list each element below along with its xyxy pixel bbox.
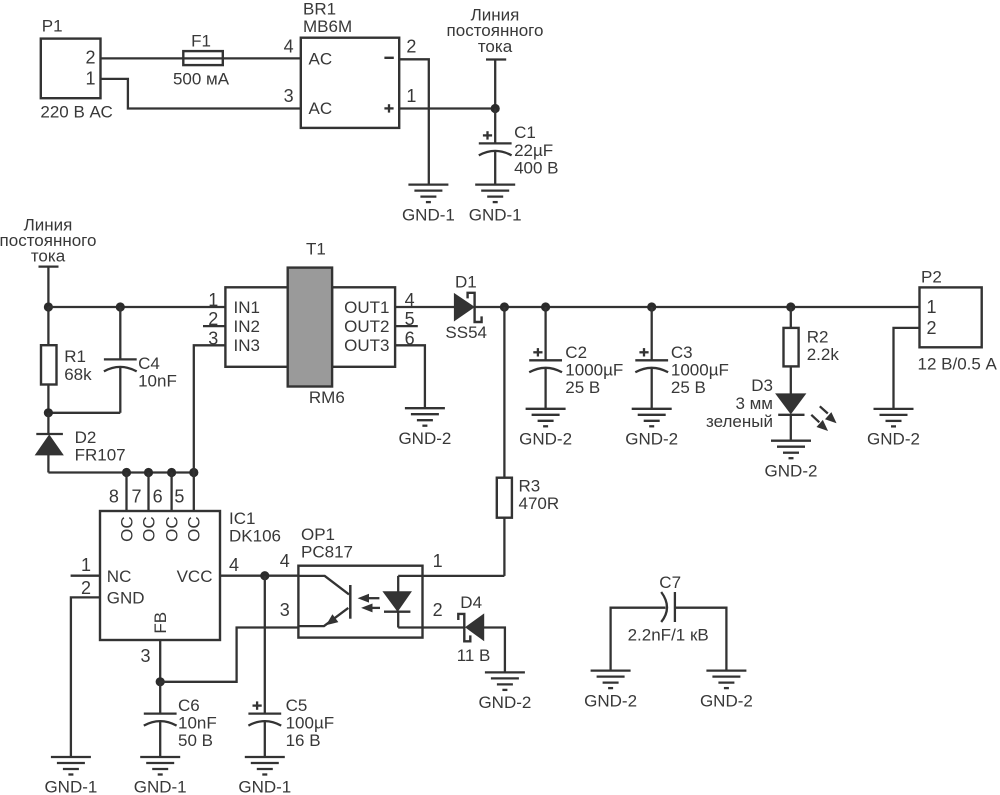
- wire: [395, 325, 418, 327]
- net label Линия постоянного тока: [447, 6, 544, 109]
- capacitor C5: [248, 576, 334, 757]
- node: [44, 302, 53, 311]
- svg-text:GND-1: GND-1: [134, 778, 187, 795]
- svg-text:R1: R1: [64, 347, 86, 366]
- capacitor C6: [144, 682, 217, 757]
- IC U1 DK106: [81, 486, 281, 666]
- svg-text:1: 1: [927, 297, 937, 317]
- node: [156, 677, 165, 686]
- svg-text:3: 3: [280, 600, 290, 620]
- ground GND-2: [398, 408, 451, 448]
- connector P2: [918, 267, 998, 373]
- wire: [484, 628, 505, 673]
- svg-text:GND-2: GND-2: [867, 430, 920, 449]
- svg-text:1000µF: 1000µF: [671, 361, 729, 380]
- node: [541, 302, 550, 311]
- svg-text:10nF: 10nF: [138, 372, 177, 391]
- svg-text:GND: GND: [107, 589, 145, 608]
- svg-text:OUT3: OUT3: [344, 336, 389, 355]
- node: [116, 302, 125, 311]
- svg-text:10nF: 10nF: [178, 714, 217, 733]
- svg-text:C1: C1: [514, 123, 536, 142]
- wire: [48, 471, 193, 473]
- svg-text:DK106: DK106: [229, 527, 281, 546]
- ground GND-2: [519, 409, 572, 449]
- svg-text:68k: 68k: [64, 365, 92, 384]
- resistor R2: [784, 307, 840, 366]
- wire: [399, 107, 495, 109]
- svg-text:2.2nF/1 кВ: 2.2nF/1 кВ: [628, 626, 709, 645]
- svg-text:7: 7: [131, 486, 141, 506]
- svg-text:400 В: 400 В: [514, 159, 558, 178]
- svg-text:IN2: IN2: [234, 317, 260, 336]
- svg-text:OC: OC: [162, 516, 181, 542]
- svg-text:T1: T1: [306, 240, 326, 259]
- ground GND-2: [584, 671, 637, 711]
- svg-text:22µF: 22µF: [514, 141, 553, 160]
- svg-text:R3: R3: [519, 477, 541, 496]
- wire: [423, 575, 505, 577]
- svg-text:1: 1: [81, 555, 91, 575]
- svg-text:500 мА: 500 мА: [173, 69, 230, 88]
- wire: [71, 597, 100, 757]
- svg-text:D3: D3: [751, 376, 773, 395]
- fuse F1: [173, 31, 230, 88]
- svg-text:8: 8: [109, 486, 119, 506]
- svg-text:3 мм: 3 мм: [735, 394, 773, 413]
- svg-text:OC: OC: [139, 516, 158, 542]
- svg-text:GND-2: GND-2: [700, 691, 753, 710]
- wire: [399, 59, 429, 184]
- svg-text:GND-2: GND-2: [625, 430, 678, 449]
- wire: [203, 325, 225, 327]
- wire: [220, 575, 298, 577]
- svg-text:3: 3: [208, 328, 218, 348]
- resistor R3: [497, 307, 559, 576]
- svg-text:GND-1: GND-1: [238, 778, 291, 795]
- svg-text:1: 1: [406, 86, 416, 106]
- svg-text:220 В АС: 220 В АС: [40, 103, 112, 122]
- svg-text:1000µF: 1000µF: [565, 361, 623, 380]
- svg-text:GND-2: GND-2: [584, 691, 637, 710]
- svg-text:1: 1: [433, 551, 443, 571]
- svg-text:OC: OC: [185, 516, 204, 542]
- svg-text:GND-1: GND-1: [402, 205, 455, 224]
- ground GND-1: [134, 757, 187, 795]
- capacitor C3: [635, 307, 729, 409]
- svg-text:C3: C3: [671, 343, 693, 362]
- node: [260, 571, 269, 580]
- wire: [147, 473, 149, 512]
- svg-text:BR1: BR1: [303, 0, 336, 19]
- svg-text:NC: NC: [107, 567, 132, 586]
- svg-text:тока: тока: [31, 247, 66, 266]
- node: [491, 104, 500, 113]
- node: [500, 302, 509, 311]
- svg-text:IN1: IN1: [234, 298, 260, 317]
- svg-text:12 В/0.5 А: 12 В/0.5 А: [918, 355, 998, 374]
- diode D1 SS54: [445, 273, 487, 343]
- svg-text:C5: C5: [286, 696, 308, 715]
- capacitor C4: [48, 307, 176, 413]
- connector P1: [40, 17, 112, 122]
- svg-text:тока: тока: [478, 37, 513, 56]
- node: [189, 468, 198, 477]
- wire: [194, 345, 226, 472]
- ground GND-1: [402, 185, 455, 225]
- wire: [894, 328, 920, 409]
- wire: [395, 345, 425, 408]
- svg-text:C6: C6: [178, 696, 200, 715]
- ground GND-1: [469, 185, 522, 225]
- svg-text:GND-2: GND-2: [765, 461, 818, 480]
- svg-text:GND-2: GND-2: [519, 430, 572, 449]
- ground GND-2: [765, 441, 818, 481]
- node: [167, 468, 176, 477]
- ground GND-2: [478, 672, 531, 712]
- svg-text:GND-1: GND-1: [44, 778, 97, 795]
- wire: [423, 626, 465, 628]
- ground GND-2: [867, 409, 920, 449]
- wire: [125, 473, 127, 512]
- wire: [159, 640, 161, 682]
- node: [122, 468, 131, 477]
- svg-text:OC: OC: [117, 516, 136, 542]
- svg-text:1: 1: [208, 290, 218, 310]
- svg-text:SS54: SS54: [445, 323, 487, 342]
- svg-text:2: 2: [927, 318, 937, 338]
- svg-text:RM6: RM6: [309, 388, 345, 407]
- svg-text:F1: F1: [191, 31, 211, 50]
- wire: [48, 306, 225, 308]
- capacitor C2: [529, 307, 623, 409]
- svg-text:470R: 470R: [519, 494, 560, 513]
- svg-text:2: 2: [433, 600, 443, 620]
- node: [144, 468, 153, 477]
- wire: [475, 306, 920, 308]
- resistor R1: [41, 307, 92, 413]
- svg-text:25 В: 25 В: [671, 378, 706, 397]
- svg-text:2: 2: [81, 578, 91, 598]
- svg-text:VCC: VCC: [177, 567, 213, 586]
- wire: [101, 79, 301, 109]
- diode D2: [36, 413, 126, 473]
- svg-text:11 В: 11 В: [457, 646, 491, 665]
- svg-text:FR107: FR107: [75, 446, 126, 465]
- svg-text:IN3: IN3: [234, 336, 260, 355]
- svg-text:2.2k: 2.2k: [807, 345, 840, 364]
- svg-text:D4: D4: [460, 593, 482, 612]
- svg-text:3: 3: [140, 646, 150, 666]
- capacitor C1: [479, 109, 559, 185]
- LED D3: [706, 366, 836, 440]
- svg-text:AC: AC: [309, 99, 333, 118]
- capacitor C7: [611, 573, 727, 671]
- svg-text:4: 4: [284, 37, 294, 57]
- wire: [160, 628, 298, 682]
- svg-text:FB: FB: [151, 612, 170, 634]
- ground GND-2: [700, 671, 753, 711]
- svg-text:GND-2: GND-2: [398, 429, 451, 448]
- svg-text:4: 4: [229, 555, 239, 575]
- svg-text:6: 6: [153, 486, 163, 506]
- svg-text:5: 5: [174, 486, 184, 506]
- svg-text:C4: C4: [138, 354, 160, 373]
- svg-text:2: 2: [85, 48, 95, 68]
- ground GND-1: [44, 757, 97, 795]
- svg-text:P1: P1: [42, 17, 63, 36]
- svg-text:100µF: 100µF: [286, 714, 335, 733]
- ground GND-2: [625, 409, 678, 449]
- wire: [193, 473, 195, 512]
- wire: [71, 575, 100, 577]
- svg-text:OUT1: OUT1: [344, 298, 389, 317]
- svg-text:IC1: IC1: [229, 509, 255, 528]
- svg-text:50 В: 50 В: [178, 731, 213, 750]
- svg-text:GND-2: GND-2: [478, 693, 531, 712]
- svg-text:MB6M: MB6M: [303, 17, 352, 36]
- svg-text:D2: D2: [75, 428, 97, 447]
- svg-text:OP1: OP1: [301, 525, 335, 544]
- svg-text:OUT2: OUT2: [344, 317, 389, 336]
- svg-text:GND-1: GND-1: [469, 205, 522, 224]
- svg-text:R2: R2: [807, 328, 829, 347]
- svg-text:C7: C7: [659, 573, 681, 592]
- optocoupler OP1 PC817: [280, 525, 443, 638]
- node: [44, 408, 53, 417]
- bridge rectifier BR1: [284, 0, 417, 128]
- svg-text:P2: P2: [921, 267, 942, 286]
- transformer T1: [208, 240, 414, 407]
- diode D4 zener 11V: [457, 593, 491, 665]
- svg-text:2: 2: [406, 37, 416, 57]
- svg-text:зеленый: зеленый: [706, 412, 773, 431]
- svg-text:3: 3: [284, 86, 294, 106]
- svg-text:C2: C2: [565, 343, 587, 362]
- net label Линия постоянного тока: [0, 215, 96, 307]
- svg-text:16 В: 16 В: [286, 731, 321, 750]
- wire: [101, 57, 301, 59]
- svg-text:25 В: 25 В: [565, 378, 600, 397]
- ground GND-1: [238, 757, 291, 795]
- node: [786, 302, 795, 311]
- wire: [170, 473, 172, 512]
- svg-text:AC: AC: [309, 50, 333, 69]
- svg-text:D1: D1: [455, 273, 477, 292]
- svg-text:PC817: PC817: [301, 543, 353, 562]
- svg-text:1: 1: [85, 68, 95, 88]
- wire: [395, 306, 454, 308]
- node: [647, 302, 656, 311]
- svg-text:4: 4: [280, 551, 290, 571]
